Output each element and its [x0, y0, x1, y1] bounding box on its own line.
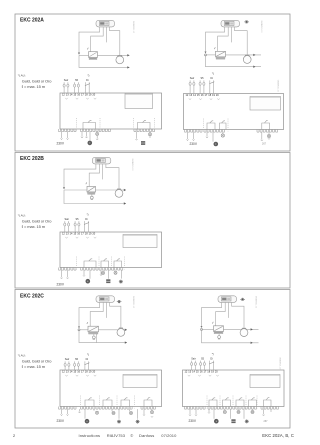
terminal numbers	[185, 370, 219, 374]
svg-text:*): *)	[212, 72, 214, 76]
wire	[61, 132, 63, 139]
lamp symbol	[129, 411, 132, 414]
wire to air sensor	[102, 164, 104, 180]
dashed separator	[76, 257, 78, 270]
relay contact	[103, 398, 112, 407]
relay contact	[249, 398, 257, 407]
wire	[213, 409, 215, 419]
sensor below valve	[90, 196, 93, 199]
wire to valve	[90, 302, 103, 326]
controller wiring box	[184, 94, 284, 130]
lamp symbol	[150, 411, 153, 414]
wire to compressor	[235, 27, 248, 56]
svg-text:ℓ = max. 15 m: ℓ = max. 15 m	[22, 364, 46, 369]
pipe (flow line)	[202, 328, 214, 330]
wire	[113, 269, 115, 272]
svg-text:Guld, Gold or Oro: Guld, Gold or Oro	[22, 359, 52, 364]
lamp symbol	[95, 411, 98, 414]
terminal numbers	[62, 232, 96, 236]
relay contact	[101, 259, 109, 268]
wire	[263, 409, 265, 414]
svg-text:Sair: Sair	[65, 358, 70, 361]
relay contact	[114, 259, 122, 268]
sensor lead tick	[212, 322, 213, 324]
wire	[252, 409, 254, 410]
wire	[195, 409, 197, 414]
wire	[79, 409, 81, 412]
display icon marker	[240, 298, 245, 301]
wire	[238, 409, 240, 410]
controller unit (EKC 202 front)	[221, 20, 240, 27]
wire	[222, 132, 224, 134]
flow arrow	[125, 329, 127, 331]
DI switch input	[209, 72, 214, 94]
wire to liquid line	[206, 27, 225, 53]
dashed separator	[256, 396, 258, 409]
lamp symbol	[114, 271, 117, 274]
DI switch input	[84, 212, 89, 232]
compressor	[117, 328, 125, 336]
wire end	[186, 139, 188, 140]
terminal numbers	[186, 93, 220, 97]
lamp symbol	[148, 133, 151, 136]
wire	[67, 270, 69, 277]
wire	[189, 409, 191, 414]
svg-text:Sair: Sair	[191, 357, 196, 360]
svg-text:*): *)	[212, 352, 214, 356]
wire to liquid line	[202, 302, 222, 327]
wire	[230, 409, 232, 419]
svg-text:084B8521.10: 084B8521.10	[255, 296, 257, 309]
dashed separator	[124, 257, 126, 270]
wire end	[206, 137, 208, 138]
wire end	[192, 139, 194, 140]
wire	[61, 270, 63, 277]
expansion valve AKV	[87, 186, 96, 194]
display module cutout	[250, 375, 280, 388]
wire	[104, 270, 106, 271]
dashed separator	[232, 396, 234, 409]
return pipe	[64, 190, 126, 204]
wire end	[268, 138, 270, 139]
terminal row	[81, 129, 111, 132]
terminal row	[141, 407, 155, 410]
dashed separator	[80, 396, 82, 409]
DI switch input	[209, 352, 214, 370]
expansion valve AKV	[216, 51, 226, 59]
svg-text:ℓ = max. 15 m: ℓ = max. 15 m	[22, 224, 46, 229]
wire to compressor	[110, 27, 120, 56]
panel frame EKC 202B	[15, 153, 290, 289]
svg-text:230V: 230V	[57, 419, 65, 423]
wire to air sensor	[227, 302, 229, 318]
relay contact	[209, 398, 217, 407]
svg-text:267: 267	[262, 143, 267, 146]
wire	[129, 409, 131, 411]
svg-text:Danfoss: Danfoss	[139, 433, 154, 438]
sensor lead tick	[87, 322, 88, 324]
svg-text:ℓ = max. 15 m: ℓ = max. 15 m	[22, 84, 46, 89]
relay contact	[264, 397, 272, 406]
svg-text:*) AU:: *) AU:	[18, 73, 26, 77]
svg-text:084B8521.10: 084B8521.10	[132, 21, 134, 34]
wire to valve	[89, 164, 99, 187]
pipe (flow line)	[224, 328, 259, 330]
terminal group marks	[189, 98, 220, 99]
terminal group marks	[65, 375, 96, 376]
wire	[187, 132, 189, 139]
wire	[143, 409, 145, 414]
svg-text:Instructions: Instructions	[79, 433, 101, 438]
controller wiring box	[60, 93, 162, 129]
svg-text:230V: 230V	[190, 142, 198, 146]
wire	[93, 409, 95, 411]
wire	[149, 132, 151, 133]
wire	[121, 270, 123, 279]
pipe inlet node	[63, 187, 65, 189]
flow arrow	[127, 54, 129, 56]
display module cutout	[250, 97, 281, 111]
terminal row	[59, 129, 77, 132]
wire end	[151, 416, 153, 417]
svg-text:2: 2	[13, 434, 15, 438]
footer center	[79, 433, 178, 438]
wire end	[66, 138, 68, 139]
wire end	[66, 414, 68, 415]
DI switch input	[85, 73, 90, 93]
lamp symbol	[101, 271, 104, 274]
dashed separator	[98, 257, 100, 270]
wire to air sensor	[105, 302, 107, 318]
expansion valve AKV	[89, 52, 98, 60]
svg-text:07/2010: 07/2010	[161, 433, 177, 438]
display module cutout	[123, 375, 157, 388]
compressor	[240, 328, 248, 336]
wire	[118, 409, 120, 419]
wire	[137, 409, 139, 419]
wire end	[83, 275, 85, 276]
display icon marker	[244, 20, 249, 23]
compressor	[243, 55, 251, 63]
return flow arrow	[125, 341, 127, 343]
controller unit (EKC 202 front)	[218, 296, 237, 303]
heater element symbol	[106, 279, 110, 283]
terminal numbers	[62, 93, 96, 97]
wire	[111, 409, 113, 411]
wire to valve	[216, 302, 226, 325]
compressor	[116, 55, 124, 63]
dashed separator	[203, 119, 205, 132]
wire to valve	[218, 27, 229, 51]
return pipe	[206, 55, 262, 67]
wire	[243, 409, 245, 419]
svg-text:084B8521.10: 084B8521.10	[132, 296, 134, 309]
svg-text:267: 267	[264, 420, 269, 423]
fan symbol	[214, 142, 219, 147]
wire to air sensor	[105, 27, 107, 43]
wire	[206, 132, 208, 137]
pipe inlet node	[78, 326, 80, 328]
flow arrow	[124, 189, 126, 191]
svg-text:Sair: Sair	[190, 77, 195, 80]
wire	[86, 132, 88, 137]
flow arrow	[253, 54, 255, 56]
heater element symbol	[141, 141, 145, 145]
relay contact	[84, 259, 96, 268]
wire	[151, 409, 153, 410]
sensor Sair	[64, 358, 70, 370]
terminal row	[59, 268, 77, 271]
wire end	[60, 138, 62, 139]
terminal row	[81, 268, 123, 271]
wire end	[195, 415, 197, 416]
wire end	[60, 278, 62, 279]
controller unit (EKC 202 front)	[92, 157, 111, 164]
dashed separator	[154, 118, 156, 131]
wire	[149, 136, 151, 138]
svg-text:230V: 230V	[189, 419, 197, 423]
svg-text:Guld, Gold or Oro: Guld, Gold or Oro	[22, 219, 52, 224]
return flow arrow	[127, 66, 129, 68]
terminal row	[208, 407, 257, 410]
lamp symbol	[267, 134, 270, 137]
heater element symbol	[231, 419, 235, 423]
lamp symbol	[96, 132, 99, 135]
display module cutout	[123, 235, 157, 248]
svg-text:Sair: Sair	[64, 218, 69, 221]
wire end	[85, 137, 87, 138]
wire to compressor	[106, 164, 119, 191]
wire	[261, 132, 263, 140]
defrost heater symbol	[119, 280, 123, 284]
wire	[61, 409, 63, 414]
wire to compressor	[232, 302, 244, 330]
dashed separator	[134, 396, 136, 409]
svg-text:EKC 202A, B, C: EKC 202A, B, C	[262, 433, 294, 438]
relay contact	[121, 398, 130, 407]
sensor S5	[74, 79, 80, 93]
sensor Sair	[191, 357, 197, 370]
controller unit (EKC 202 front)	[96, 20, 115, 27]
pipe (flow line)	[206, 54, 216, 56]
relay contact	[138, 120, 151, 129]
lamp symbol	[221, 134, 224, 137]
pipe inlet node	[78, 53, 80, 55]
expansion valve AKV	[88, 326, 99, 334]
panel frame EKC 202A	[15, 14, 290, 151]
sensor lead tick	[214, 47, 215, 49]
sensor S5	[200, 357, 206, 370]
svg-text:Sair: Sair	[64, 79, 69, 82]
svg-text:EKC 202C: EKC 202C	[20, 294, 44, 300]
defrost heater symbol	[136, 420, 140, 424]
dashed separator	[133, 118, 135, 131]
pipe inlet node	[205, 52, 207, 54]
terminal row	[257, 130, 278, 133]
sensor S5	[74, 358, 80, 370]
dashed separator	[99, 118, 101, 131]
compressor	[115, 189, 123, 197]
defrost heater symbol	[245, 419, 249, 423]
fan symbol	[214, 419, 219, 424]
lamp symbol	[251, 410, 254, 413]
svg-text:Di: Di	[86, 358, 89, 361]
terminal row	[185, 130, 203, 133]
terminal group marks	[65, 237, 96, 238]
fan symbol	[85, 419, 90, 424]
wire end	[96, 139, 98, 140]
return flow arrow	[253, 65, 255, 67]
wire	[81, 132, 83, 137]
wire	[89, 270, 91, 279]
dashed separator	[76, 118, 78, 131]
flow arrow	[251, 328, 253, 330]
fan symbol	[86, 279, 91, 284]
sensor Sair	[64, 218, 70, 232]
expansion valve AKV	[214, 326, 224, 334]
pipe inlet node	[201, 326, 203, 328]
dashed separator	[111, 257, 113, 270]
wire	[67, 409, 69, 414]
display module cutout	[125, 94, 153, 109]
wire to valve	[91, 27, 104, 52]
svg-text:RI8JV753: RI8JV753	[107, 433, 126, 438]
pipe (flow line)	[79, 329, 88, 331]
wire end	[261, 140, 263, 141]
svg-text:*): *)	[87, 212, 89, 216]
wire	[83, 270, 85, 275]
wire	[96, 131, 98, 134]
controller wiring box	[60, 370, 162, 407]
svg-text:Guld, Gold or Oro: Guld, Gold or Oro	[22, 79, 52, 84]
sensor lead tick	[86, 182, 87, 184]
wire	[100, 270, 102, 274]
wire	[95, 334, 97, 343]
wire end	[143, 414, 145, 415]
controller wiring box	[60, 232, 162, 268]
terminal row	[185, 407, 206, 410]
svg-text:084B8521.10: 084B8521.10	[131, 159, 133, 172]
svg-text:084B8521.10: 084B8521.10	[277, 80, 279, 93]
wire	[224, 409, 226, 410]
terminal numbers	[62, 370, 96, 374]
display icon marker	[117, 300, 122, 303]
return pipe	[79, 330, 127, 343]
terminal group marks	[188, 375, 219, 376]
dashed separator	[219, 396, 221, 409]
relay contact	[85, 398, 94, 407]
return flow arrow	[124, 202, 126, 204]
lamp symbol	[223, 410, 226, 413]
return flow arrow	[251, 342, 253, 344]
svg-text:084B8521.10: 084B8521.10	[260, 21, 262, 34]
controller unit (EKC 202 front)	[96, 296, 115, 303]
terminal row	[59, 407, 77, 410]
svg-text:230V: 230V	[57, 282, 65, 286]
svg-text:230V: 230V	[57, 141, 65, 145]
wire	[268, 132, 270, 134]
pipe (flow line)	[96, 189, 127, 191]
wire end	[100, 274, 102, 275]
relay contact	[207, 121, 215, 130]
terminal row	[81, 407, 133, 410]
dashed separator	[227, 119, 229, 132]
sensor Sair	[189, 77, 195, 93]
sensor below valve	[92, 336, 95, 339]
svg-text:EKC 202B: EKC 202B	[20, 156, 44, 162]
sensor Sair	[63, 79, 69, 93]
pipe (flow line)	[64, 189, 87, 191]
terminal group marks	[65, 98, 96, 99]
wire end	[66, 278, 68, 279]
svg-text:*): *)	[88, 73, 90, 77]
wire end	[135, 139, 137, 140]
pipe (flow line)	[99, 329, 128, 331]
relay contact	[262, 120, 270, 129]
pipe (flow line)	[98, 54, 130, 56]
wire end	[78, 412, 80, 413]
wire	[270, 409, 272, 412]
wire	[193, 132, 195, 139]
return pipe	[79, 55, 130, 67]
relay contact	[223, 398, 231, 407]
lamp symbol	[112, 411, 115, 414]
svg-text:*) AU:: *) AU:	[18, 214, 26, 218]
controller wiring box	[183, 370, 285, 407]
svg-text:*) AU:: *) AU:	[18, 354, 26, 358]
wire	[108, 270, 110, 279]
svg-text:084B8521.10: 084B8521.10	[279, 357, 281, 370]
dashed separator	[206, 396, 208, 409]
terminal row	[204, 130, 225, 133]
wire	[84, 409, 86, 419]
wire end	[81, 137, 83, 138]
sensor below valve	[218, 336, 221, 339]
sensor lead tick	[87, 48, 88, 50]
dashed separator	[245, 396, 247, 409]
wire to liquid line	[79, 27, 100, 53]
fan symbol	[88, 141, 93, 146]
wire	[67, 132, 69, 139]
wire to compressor	[110, 302, 121, 330]
terminal row	[134, 129, 155, 132]
lamp symbol	[237, 410, 240, 413]
wire to liquid line	[79, 302, 100, 327]
relay contact	[220, 121, 227, 130]
relay contact	[83, 120, 96, 129]
terminal row	[261, 407, 279, 410]
pipe (flow line)	[79, 54, 89, 56]
wire to air sensor	[230, 27, 232, 43]
wire	[96, 136, 98, 139]
defrost heater symbol	[117, 420, 121, 424]
DI switch input	[84, 353, 89, 370]
svg-text:Di: Di	[86, 79, 89, 82]
wire	[212, 132, 214, 142]
wire	[208, 409, 210, 412]
panel frame EKC 202C	[15, 290, 290, 429]
dashed separator	[116, 396, 118, 409]
wire to liquid line	[64, 164, 96, 188]
dashed separator	[99, 396, 101, 409]
sensor S5	[74, 218, 80, 232]
svg-text:©: ©	[130, 433, 133, 438]
wire end	[262, 415, 264, 416]
return pipe	[202, 329, 259, 342]
svg-text:*): *)	[87, 353, 89, 357]
wire	[89, 132, 91, 141]
pipe (flow line)	[226, 54, 262, 56]
